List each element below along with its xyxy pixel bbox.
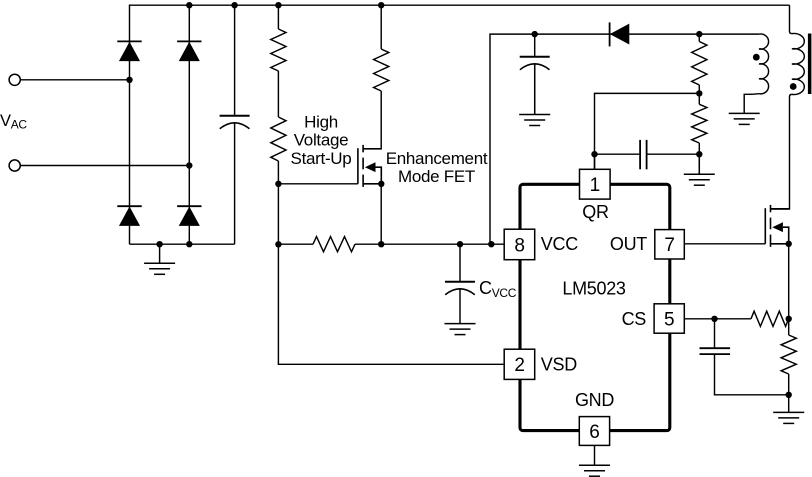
wire: primary bottom lead to FET drain xyxy=(771,94,792,209)
wire: bulk cap bottom lead xyxy=(234,123,236,244)
junction: QR divider midpoint xyxy=(696,90,702,96)
wire: start-up FET source to VCC rail xyxy=(380,184,382,244)
junction: AC input 1 / bridge left leg xyxy=(126,77,132,83)
wire: CVCC bottom lead xyxy=(459,289,461,323)
diode: bridge bottom-left xyxy=(117,206,141,225)
junction: CS pin / filter cap xyxy=(711,316,717,322)
svg-text:Voltage: Voltage xyxy=(294,131,349,150)
svg-text:Start-Up: Start-Up xyxy=(291,149,352,168)
wire: QR feedback to pin 1 xyxy=(595,93,700,169)
transformer T1 aux winding xyxy=(759,34,769,94)
capacitor: VCC storage cap xyxy=(520,57,550,70)
capacitor: CS filter cap xyxy=(700,348,731,354)
svg-text:VAC: VAC xyxy=(0,112,27,132)
svg-text:GND: GND xyxy=(575,390,614,410)
svg-text:VSD: VSD xyxy=(541,354,577,374)
junction: HV rail / bulk cap xyxy=(231,2,237,8)
wire: primary top lead xyxy=(790,5,792,33)
wire: OUT pin to FET gate xyxy=(684,243,765,245)
wire: FET source down to CS node xyxy=(788,244,790,319)
op-amp/IC U1 LM5023 outline xyxy=(520,184,670,430)
wire: CS resistor bottom lead xyxy=(788,374,790,395)
ground: CS network xyxy=(773,412,804,423)
wire: QR divider upper leads xyxy=(698,34,700,41)
junction: AC input 2 / bridge right leg xyxy=(186,162,192,168)
pin 6 box xyxy=(579,417,609,446)
pin 2 box xyxy=(504,349,535,379)
diode: bridge top-right xyxy=(177,41,201,60)
wire: CS ground stem xyxy=(788,395,790,413)
wire: drain resistor leads xyxy=(380,5,382,49)
wire: CVCC top lead xyxy=(459,244,461,282)
pin 5 box xyxy=(654,304,684,333)
svg-text:High: High xyxy=(304,112,338,131)
svg-text:5: 5 xyxy=(664,309,674,330)
wire: top HV rail xyxy=(130,5,790,41)
wire: CS pin lead xyxy=(684,318,751,320)
wire: VCC feed from aux rectifier xyxy=(490,34,759,244)
diode: aux winding rectifier xyxy=(610,22,629,46)
wire: VCC storage cap leads xyxy=(534,34,536,57)
resistor: CS sense xyxy=(781,335,796,374)
wire: gate of start-up FET xyxy=(278,183,358,185)
capacitor: CVCC xyxy=(445,282,475,295)
wire: CS cap top lead xyxy=(714,319,716,348)
junction: aux rectifier line / QR divider top xyxy=(696,31,702,37)
wire: QR cap right lead xyxy=(647,153,700,155)
wire: bridge left leg xyxy=(129,41,131,244)
transformer T1 aux winding polarity dot xyxy=(753,54,760,61)
wire: QR ground stem xyxy=(698,154,700,174)
svg-text:LM5023: LM5023 xyxy=(562,279,626,299)
wire: bridge ground stem xyxy=(159,244,161,263)
ground: aux winding xyxy=(729,113,760,124)
wire: HV start-up chain xyxy=(277,5,279,29)
transistor: enhancement-mode start-up FET xyxy=(358,145,381,187)
diode: bridge top-left xyxy=(117,41,141,60)
junction: VCC rail / CVCC xyxy=(457,241,463,247)
resistor: VCC rail series xyxy=(313,237,355,252)
resistor: high-voltage start-up lower xyxy=(271,117,286,161)
junction: bridge return / ground xyxy=(156,241,162,247)
junction: pin 1 node xyxy=(591,151,597,157)
transformer T1 primary polarity dot xyxy=(790,83,797,90)
ground: QR divider xyxy=(684,174,715,185)
junction: QR divider bottom xyxy=(696,151,702,157)
junction: aux rectifier line / VCC storage cap xyxy=(532,31,538,37)
wire: CS resistor top lead xyxy=(788,319,790,335)
junction: bridge return / right leg xyxy=(186,241,192,247)
junction: start-up chain / FET gate xyxy=(275,181,281,187)
junction: start-up FET source / VCC rail xyxy=(378,241,384,247)
terminal: AC input bottom xyxy=(9,160,20,171)
ground: bridge return xyxy=(144,263,175,274)
wire: pin 6 ground stem xyxy=(594,445,596,465)
junction: HV rail / drain resistor xyxy=(378,2,384,8)
svg-text:8: 8 xyxy=(514,235,524,256)
pin 1 box xyxy=(580,169,611,199)
svg-text:VCC: VCC xyxy=(541,234,578,254)
transistor: main switching MOSFET xyxy=(765,205,788,247)
svg-text:CVCC: CVCC xyxy=(479,278,517,300)
capacitor: QR series cap xyxy=(640,140,647,169)
wire: VCC rail xyxy=(278,243,313,245)
junction: CS network ground node xyxy=(786,392,792,398)
junction: HV rail / start-up resistors xyxy=(275,2,281,8)
transformer T1 core xyxy=(808,34,812,95)
diode: bridge bottom-right xyxy=(177,206,201,225)
svg-text:OUT: OUT xyxy=(610,234,647,254)
wire: VCC cap ground stem xyxy=(534,64,536,115)
terminal: AC input top xyxy=(9,74,20,85)
svg-text:7: 7 xyxy=(664,235,674,256)
resistor: start-up FET drain xyxy=(374,49,389,91)
wire: aux winding bottom to ground xyxy=(744,94,759,113)
wire: CS cap bottom lead xyxy=(715,354,789,395)
junction: start-up chain / VCC rail xyxy=(275,241,281,247)
junction: VCC rail / aux rectifier feed xyxy=(488,241,494,247)
pin 7 box xyxy=(655,230,685,259)
svg-text:6: 6 xyxy=(589,422,599,443)
pin 8 box xyxy=(504,229,535,260)
junction: HV rail / right bridge leg xyxy=(186,2,192,8)
resistor: high-voltage start-up upper xyxy=(271,29,286,71)
capacitor: bulk input cap xyxy=(220,116,250,129)
resistor: QR divider upper xyxy=(692,42,707,86)
wire: AC input 2 xyxy=(20,165,189,167)
wire: bulk cap top lead xyxy=(234,5,236,116)
svg-text:Enhancement: Enhancement xyxy=(386,149,488,168)
wire: VSD run xyxy=(278,244,504,364)
transformer T1 primary winding xyxy=(792,33,804,94)
wire: bridge bottom rail xyxy=(130,243,235,245)
svg-text:CS: CS xyxy=(622,309,647,329)
IC pin 1 lead xyxy=(594,154,596,169)
svg-text:QR: QR xyxy=(582,202,609,222)
ground: VCC storage cap xyxy=(519,115,550,126)
wire: bridge right leg xyxy=(188,5,190,244)
ground: CVCC xyxy=(445,324,476,335)
resistor: QR divider lower xyxy=(692,104,707,143)
svg-text:2: 2 xyxy=(514,355,524,376)
svg-text:1: 1 xyxy=(590,175,600,196)
svg-text:Mode FET: Mode FET xyxy=(398,167,475,186)
junction: CS resistors / FET source xyxy=(786,316,792,322)
ground: IC GND pin xyxy=(579,465,610,476)
wire: AC input 1 xyxy=(20,79,129,81)
resistor: CS series xyxy=(751,311,789,326)
wire: QR cap left lead xyxy=(595,153,641,155)
